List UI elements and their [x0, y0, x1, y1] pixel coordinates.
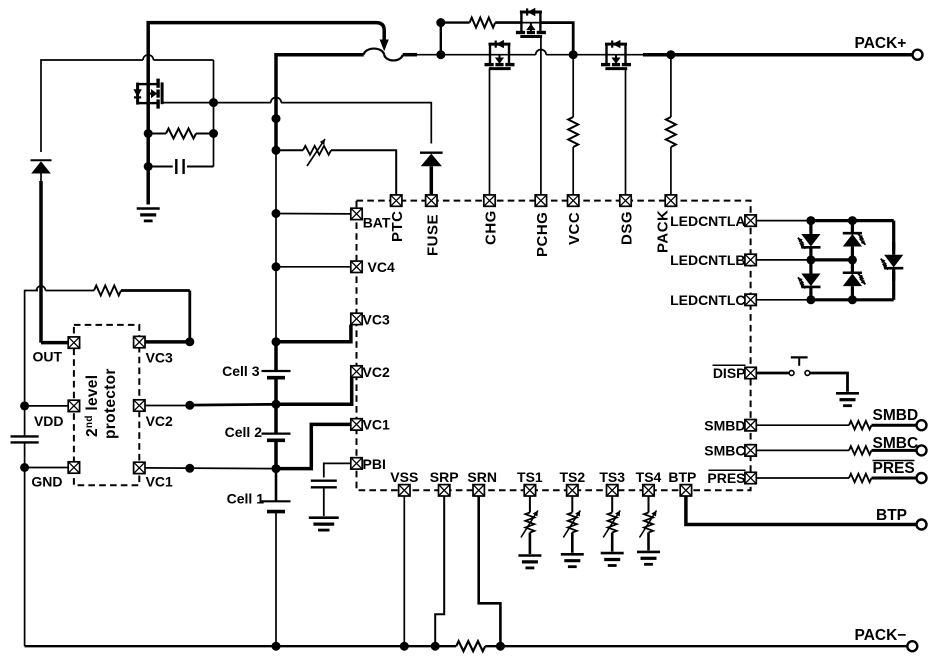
IC pin LEDCNTLC — [745, 294, 756, 305]
IC pin label LEDCNTLC — [670, 292, 745, 308]
IC pin label PCHG — [534, 212, 551, 257]
wire LEDCNTLB rail — [756, 259, 811, 261]
IC pin label VCC — [566, 212, 583, 245]
svg-text:protector: protector — [102, 368, 119, 439]
transistor Q-DSG (discharge NFET) — [601, 40, 631, 69]
label Cell 2 — [225, 424, 263, 440]
label PRES — [873, 460, 915, 477]
svg-text:VCC: VCC — [566, 212, 583, 245]
IC pin PRES — [745, 472, 756, 483]
wire TS3 lead — [611, 496, 613, 513]
hop VDD feed over diode line — [37, 286, 46, 291]
svg-text:PACK+: PACK+ — [855, 35, 907, 52]
wire resistor to PCHG FET — [495, 21, 521, 24]
IC U1 (battery gas gauge) dashed outline — [357, 201, 751, 491]
svg-text:DISP: DISP — [713, 365, 746, 381]
IC pin label LEDCNTLB — [670, 252, 745, 268]
IC pin label DISP — [713, 365, 746, 381]
svg-text:LEDCNTLA: LEDCNTLA — [670, 213, 745, 229]
wire diode to OUT — [39, 181, 43, 343]
svg-text:VC2: VC2 — [146, 413, 173, 429]
svg-text:PRES: PRES — [873, 460, 915, 477]
IC pin VC2 — [351, 366, 362, 377]
IC pin TS1 — [524, 485, 535, 496]
svg-text:PTC: PTC — [389, 211, 406, 243]
IC pin SMBC — [745, 445, 756, 456]
wire PBI lead — [324, 463, 351, 477]
svg-text:PACK−: PACK− — [855, 627, 907, 644]
IC pin label PRES — [707, 470, 745, 486]
capacitor C-PBI — [311, 480, 337, 482]
capacitor C-VDD — [24, 406, 26, 436]
thermistor RT1 — [521, 511, 538, 538]
node LED A2 — [848, 216, 857, 225]
node VDD tap — [20, 401, 29, 410]
label Cell 3 — [222, 363, 260, 379]
label SMBC — [873, 435, 919, 452]
wire stack cell2 — [274, 404, 278, 433]
IC pin label VC1 — [363, 417, 390, 433]
protector pin VC3 — [134, 336, 145, 347]
svg-text:VC1: VC1 — [146, 473, 173, 489]
node PACK junction — [666, 50, 675, 59]
LED DA2 (green) — [843, 221, 866, 260]
wire GND pin lead — [25, 467, 69, 469]
wire VC3 net — [276, 325, 351, 342]
ground TS2 — [561, 554, 584, 566]
wire TS4 lead — [648, 496, 650, 513]
svg-text:VC1: VC1 — [363, 417, 390, 433]
svg-text:BAT: BAT — [363, 215, 391, 231]
IC pin PCHG — [535, 195, 546, 206]
thermistor RT4 — [640, 511, 657, 538]
IC pin label CHG — [483, 210, 500, 245]
diode D2 (fuse blow) — [420, 153, 443, 195]
svg-text:FUSE: FUSE — [424, 214, 441, 256]
node R-C bottom junction — [144, 162, 153, 171]
wire gate net vertical — [213, 60, 215, 167]
hop over left FET rail — [143, 55, 153, 60]
node VC3 resistor junction — [185, 337, 194, 346]
svg-text:PRES: PRES — [707, 470, 745, 486]
resistor R-PACK — [670, 55, 672, 117]
node GND tap — [20, 463, 29, 472]
wire PCHG branch to resistor — [441, 21, 470, 23]
node LED A1 — [806, 216, 815, 225]
node VSS rail — [400, 642, 409, 651]
node SRN rail — [496, 642, 505, 651]
IC pin label TS3 — [599, 469, 625, 485]
svg-text:Cell 1: Cell 1 — [227, 490, 265, 506]
switch SW-DISP — [789, 357, 810, 375]
battery Cell 1 — [262, 501, 291, 511]
wire PCHG gate — [540, 37, 542, 195]
IC pin TS2 — [567, 485, 578, 496]
transistor Q-CHG (charge NFET) — [485, 40, 515, 69]
resistor R-SMBC — [849, 446, 872, 454]
wire DSG gate — [625, 69, 627, 195]
terminal PRES — [917, 473, 927, 483]
LED DC1 (yellow) — [881, 242, 904, 281]
IC pin label TS2 — [559, 469, 585, 485]
wire VC4 tap to pin — [276, 266, 351, 268]
svg-text:BTP: BTP — [876, 507, 907, 524]
transistor Q-FB (fuse blow NFET) — [133, 79, 162, 109]
node gate tee — [209, 98, 218, 107]
terminal SMBD — [917, 420, 927, 430]
svg-text:SMBD: SMBD — [873, 407, 919, 424]
node PTC tap — [272, 146, 281, 155]
svg-text:LEDCNTLB: LEDCNTLB — [670, 252, 745, 268]
protector pin label VDD — [34, 413, 64, 429]
svg-text:SMBD: SMBD — [704, 417, 745, 433]
wire fuse to CHG FET — [403, 53, 417, 57]
node VC3 tap — [272, 337, 281, 346]
wire SMBC line — [756, 449, 849, 451]
IC pin label SRN — [467, 469, 497, 485]
label SMBD — [873, 407, 919, 424]
IC pin label VSS — [390, 469, 418, 485]
IC pin label LEDCNTLA — [670, 213, 745, 229]
svg-text:GND: GND — [31, 473, 62, 489]
thermistor RT3 — [603, 511, 620, 538]
svg-text:SRP: SRP — [430, 469, 459, 485]
node BAT tap — [272, 209, 281, 218]
protector pin label GND — [31, 473, 62, 489]
wire VC1 net (IC) — [276, 424, 351, 468]
IC pin label VC2 — [363, 364, 390, 380]
IC pin label FUSE — [424, 214, 441, 256]
wire TS3 to ground — [611, 533, 614, 552]
wire PRES line — [756, 477, 849, 479]
protector pin label OUT — [32, 348, 62, 364]
IC pin label SMBC — [704, 443, 745, 459]
terminal PACK- — [907, 641, 917, 651]
node LED B1 — [806, 255, 815, 264]
wire VDD pin lead — [25, 405, 69, 407]
node fuse-output junction — [436, 50, 445, 59]
wire BAT tap to pin — [276, 213, 351, 215]
IC pin PTC — [391, 195, 402, 206]
terminal BTP — [917, 520, 927, 530]
IC pin label PACK — [655, 210, 672, 253]
wire protector VC3 — [145, 340, 190, 344]
resistor R-PCHG — [470, 18, 496, 28]
svg-text:SMBC: SMBC — [873, 435, 919, 452]
svg-text:SMBC: SMBC — [704, 443, 745, 459]
wire PACK- rail left — [25, 645, 457, 647]
wire BTP — [686, 496, 917, 525]
wire PCHG FET to VCC node — [540, 23, 573, 55]
wire battery stack upper — [275, 150, 277, 341]
IC pin PACK — [665, 195, 676, 206]
wire CHG FET to DSG FET — [509, 54, 536, 56]
IC pin DISP — [745, 367, 756, 378]
wire SMBC to terminal — [872, 449, 917, 452]
label Cell 1 — [227, 490, 265, 506]
node SRP rail — [431, 642, 440, 651]
IC pin BAT — [351, 208, 362, 219]
wire battery top to fuse — [276, 55, 364, 151]
IC pin label SRP — [430, 469, 459, 485]
svg-text:Cell 3: Cell 3 — [222, 363, 260, 379]
wire top-left thick rail — [148, 23, 384, 85]
LED DA1 (red) — [798, 221, 821, 260]
ground fuse-blow FET — [137, 209, 160, 221]
IC pin TS3 — [607, 485, 618, 496]
terminal SMBC — [917, 445, 927, 455]
wire PACK- rail right — [485, 645, 907, 647]
wire OUT net — [41, 341, 68, 345]
protector pin label VC1 — [146, 473, 173, 489]
wire DSG FET to PACK+ — [626, 54, 644, 56]
node VCC junction — [569, 50, 578, 59]
wire TS2 lead — [571, 496, 573, 513]
IC pin label VC4 — [368, 259, 395, 275]
svg-text:Cell 2: Cell 2 — [225, 424, 263, 440]
wire Q-FB gate lead — [162, 102, 213, 104]
IC pin VC4 — [351, 261, 362, 272]
ground DISP switch — [836, 393, 859, 405]
LED DB2 (green) — [843, 260, 866, 300]
capacitor C-FB gate — [148, 166, 173, 168]
wire VSS drop — [403, 496, 405, 646]
resistor R-SENSE — [456, 641, 485, 651]
label PACK+ — [855, 35, 907, 52]
wire SRN drop — [479, 496, 501, 646]
svg-text:VDD: VDD — [34, 413, 64, 429]
IC pin SRN — [473, 485, 484, 496]
svg-text:PBI: PBI — [363, 456, 386, 472]
resistor R-PRES — [849, 474, 872, 482]
IC pin label TS1 — [517, 469, 543, 485]
node VC2 tap — [272, 400, 281, 409]
svg-text:VC3: VC3 — [146, 350, 173, 366]
protector pin VC2 — [134, 400, 145, 411]
IC pin TS4 — [643, 485, 654, 496]
protector pin VDD — [68, 400, 79, 411]
fuse blow arrow — [380, 40, 389, 52]
protector pin VC1 — [134, 462, 145, 473]
wire stack cell3 — [274, 342, 278, 371]
wire gate net to fuse diode — [214, 102, 271, 104]
diode D1 (protector OUT) — [31, 160, 52, 182]
node LED B2 — [848, 255, 857, 264]
node gate-R junction — [209, 129, 218, 138]
node stack dot A — [272, 114, 281, 123]
IC pin label TS4 — [636, 469, 662, 485]
wire TS4 to ground — [647, 533, 650, 551]
label BTP — [876, 507, 907, 524]
svg-text:TS2: TS2 — [559, 469, 585, 485]
battery Cell 2 — [262, 434, 291, 441]
resistor R-FB gate — [166, 129, 196, 139]
IC pin SMBD — [745, 420, 756, 431]
svg-text:OUT: OUT — [32, 348, 62, 364]
svg-text:TS1: TS1 — [517, 469, 543, 485]
ground PBI — [309, 518, 339, 530]
IC pin CHG — [484, 195, 495, 206]
svg-text:DSG: DSG — [619, 211, 636, 245]
svg-text:TS4: TS4 — [636, 469, 662, 485]
IC pin VC3 — [351, 313, 362, 324]
svg-text:TS3: TS3 — [599, 469, 625, 485]
IC pin label BTP — [668, 469, 696, 485]
wire DISP to switch — [756, 372, 789, 375]
wire diode feed — [41, 60, 143, 152]
LED DB1 (red) — [798, 260, 821, 300]
IC pin VSS — [399, 485, 410, 496]
wire FET drain down — [146, 103, 150, 204]
wire SMBD to terminal — [872, 424, 917, 427]
IC pin PBI — [351, 458, 362, 469]
protector pin GND — [68, 462, 79, 473]
wire switch to ground — [810, 373, 848, 392]
IC pin label PTC — [389, 211, 406, 243]
terminal PACK+ — [913, 50, 923, 60]
svg-text:BTP: BTP — [668, 469, 696, 485]
wire TS1 to ground — [529, 533, 532, 555]
svg-text:CHG: CHG — [483, 210, 500, 245]
resistor R-VDD feed — [46, 290, 95, 292]
wire stack cell1 — [275, 469, 278, 502]
IC pin LEDCNTLB — [745, 254, 756, 265]
node stack to PACK- rail — [272, 642, 281, 651]
ground TS4 — [637, 552, 660, 564]
protector pin OUT — [68, 337, 79, 348]
node R-C top junction — [144, 129, 153, 138]
2nd level protector U2 dashed outline — [74, 325, 139, 485]
node VC1 tap — [272, 464, 281, 473]
node LED C2 — [848, 295, 857, 304]
IC pin SRP — [439, 485, 450, 496]
resistor R-SMBD — [849, 421, 872, 429]
2nd level protector label — [84, 368, 119, 439]
IC pin label VC3 — [363, 311, 390, 327]
ground TS3 — [601, 553, 624, 565]
svg-text:PCHG: PCHG — [534, 212, 551, 257]
wire protector VC2 net — [145, 405, 190, 407]
svg-text:SRN: SRN — [467, 469, 497, 485]
resistor R-VCC — [572, 55, 574, 117]
fuse F1 — [364, 49, 403, 61]
IC pin DSG — [620, 195, 631, 206]
wire PCHG branch tap — [440, 23, 442, 55]
wire VC2 net (IC) — [276, 377, 352, 404]
node LED C1 — [806, 295, 815, 304]
thermistor PTC — [276, 149, 303, 151]
wire LEDCNTLC rail — [756, 299, 811, 301]
node VC1 mid dot — [185, 464, 194, 473]
IC pin BTP — [680, 485, 691, 496]
svg-text:VC4: VC4 — [368, 259, 395, 275]
IC pin LEDCNTLA — [745, 215, 756, 226]
svg-text:VSS: VSS — [390, 469, 418, 485]
wire GND down to PACK- rail — [24, 468, 26, 647]
thermistor RT2 — [563, 511, 580, 538]
transistor Q-PCHG (precharge PFET) — [516, 8, 546, 37]
IC pin FUSE — [426, 195, 437, 206]
label PACK- — [855, 627, 907, 644]
IC pin label PBI — [363, 456, 386, 472]
battery Cell 3 — [262, 371, 291, 378]
svg-text:VC3: VC3 — [363, 311, 390, 327]
wire PRES to terminal — [872, 477, 917, 480]
wire CHG gate — [489, 69, 491, 195]
wire LED column3 — [892, 221, 895, 251]
svg-text:LEDCNTLC: LEDCNTLC — [670, 292, 745, 308]
wire VDD feed riser — [25, 291, 38, 406]
protector pin label VC2 — [146, 413, 173, 429]
IC pin label SMBD — [704, 417, 745, 433]
IC pin label DSG — [619, 211, 636, 245]
wire TS2 to ground — [571, 533, 574, 553]
svg-text:VC2: VC2 — [363, 364, 390, 380]
IC pin VCC — [568, 195, 579, 206]
IC pin VC1 — [351, 419, 362, 430]
wire SMBD line — [756, 424, 849, 426]
IC pin label BAT — [363, 215, 391, 231]
wire LEDCNTLA rail — [756, 220, 811, 222]
node VC4 tap — [272, 262, 281, 271]
node PCHG branch top — [436, 18, 445, 27]
wire TS1 lead — [529, 496, 531, 513]
node VC2 mid dot — [185, 401, 194, 410]
ground TS1 — [518, 556, 541, 568]
wire protector VC1 net — [145, 467, 276, 470]
protector pin label VC3 — [146, 350, 173, 366]
wire SRP drop — [435, 496, 444, 646]
